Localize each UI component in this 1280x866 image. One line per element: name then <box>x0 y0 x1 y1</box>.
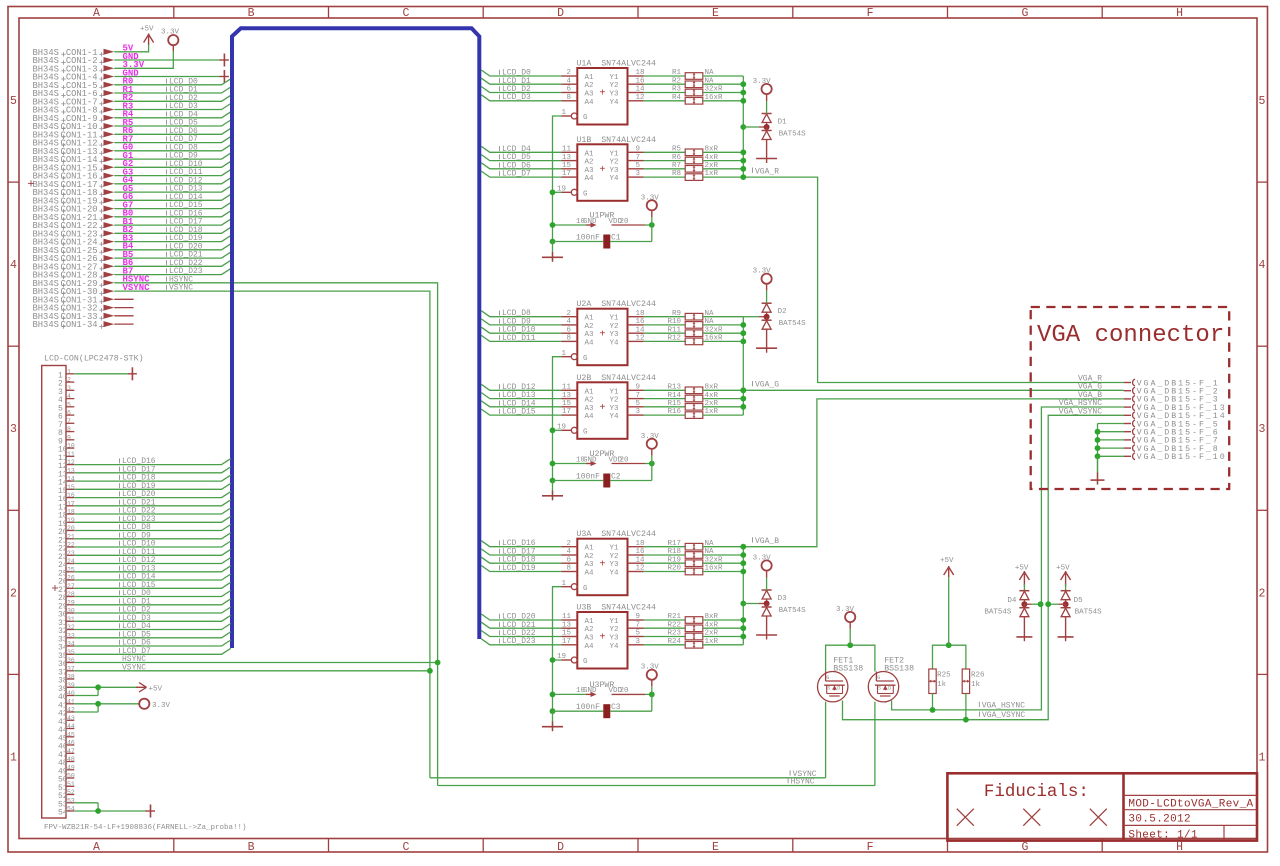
LCD-CON pin 14 <box>58 476 75 488</box>
node VGA_R label at VGA connector <box>1078 375 1102 384</box>
wire LCD_D8 from CON1 <box>114 143 231 152</box>
LCD-CON pin 41 <box>58 698 75 710</box>
connector LCD-CON (LPC2478-STK) body <box>42 354 144 819</box>
connector CON1 pin 22 (BH34S) <box>33 221 115 231</box>
connector pin VGA_DB15-F_2 <box>1124 387 1220 396</box>
part origin CON1 <box>28 180 34 186</box>
svg-text:2: 2 <box>1259 587 1266 600</box>
wire GND LCD-CON pin1 <box>74 373 128 375</box>
LCD-CON pin 45 <box>58 731 75 743</box>
connector CON1 pin 18 (BH34S) <box>33 188 115 198</box>
connector CON1 pin 3 (BH34S) <box>33 64 115 74</box>
svg-text:+5V: +5V <box>1015 564 1029 572</box>
wire LCD_D1 from CON1 <box>114 86 231 95</box>
resistor R19 32xR <box>644 556 744 566</box>
wire enable net U3 <box>553 587 562 712</box>
wire LCD_D3 from CON1 <box>114 102 231 111</box>
LCD-CON pin 50 <box>58 773 75 785</box>
connector CON1 pin 2 (BH34S) <box>33 56 115 66</box>
LCD-CON pin 35 <box>58 649 75 661</box>
node R1 label <box>123 85 134 95</box>
LCD-CON pin 8 <box>58 426 74 438</box>
LCD-CON pin 49 <box>58 764 75 776</box>
connector CON1 pin 7 (BH34S) <box>33 97 115 107</box>
resistor R4 16xR <box>644 94 744 104</box>
connector CON1 pin 23 (BH34S) <box>33 229 115 239</box>
svg-text:A3: A3 <box>585 331 595 339</box>
svg-text:LCD_D15: LCD_D15 <box>502 408 536 417</box>
node VGA_B label at VGA connector <box>1078 391 1102 400</box>
junction <box>740 174 746 180</box>
svg-text:A2: A2 <box>585 159 594 167</box>
power +5V symbol <box>940 557 954 645</box>
svg-text:1: 1 <box>67 368 71 375</box>
svg-text:R6: R6 <box>672 154 682 162</box>
wire diode tap U2 <box>743 316 766 318</box>
svg-text:R5: R5 <box>672 146 682 154</box>
node B6 label <box>123 258 134 268</box>
wire LCD_D23 to U3B <box>481 637 561 646</box>
VGA connector box <box>1031 307 1230 489</box>
LCD-CON pin 42 <box>58 707 75 719</box>
svg-text:3.3V: 3.3V <box>753 78 772 86</box>
node G3 label <box>123 167 134 177</box>
wire LCD_D20 to U3B <box>481 613 561 622</box>
connector CON1 pin 21 (BH34S) <box>33 213 115 223</box>
transistor FET2 BSS138 <box>868 656 914 702</box>
power 3.3V symbol <box>753 268 772 304</box>
svg-text:Y4: Y4 <box>610 643 620 651</box>
LCD-CON pin 53 <box>58 797 75 809</box>
resistor R10 NA <box>644 318 744 328</box>
svg-text:G: G <box>583 658 588 666</box>
wire LCD_D1 to U1A <box>481 77 561 86</box>
LCD-CON pin 34 <box>58 641 75 653</box>
svg-text:BAT54S: BAT54S <box>779 131 807 139</box>
diode D2 BAT54S <box>762 303 807 329</box>
node B1 label <box>123 217 134 227</box>
part origin LCD-CON <box>52 585 58 591</box>
svg-text:R13: R13 <box>667 384 681 392</box>
node 5V label <box>123 44 134 54</box>
svg-text:Y2: Y2 <box>610 159 619 167</box>
svg-text:+: + <box>599 403 605 414</box>
svg-text:R8: R8 <box>672 170 681 178</box>
svg-text:100nF: 100nF <box>576 233 600 242</box>
svg-text:30: 30 <box>67 608 75 615</box>
node G6 label <box>123 192 134 202</box>
connector CON1 pin 25 (BH34S) <box>33 246 115 256</box>
svg-text:1: 1 <box>1259 751 1266 764</box>
connector CON1 pin 13 (BH34S) <box>33 147 115 157</box>
LCD-CON pin 1 <box>58 368 74 380</box>
node G5 label <box>123 184 134 194</box>
LCD-CON pin 2 <box>58 377 74 389</box>
ground <box>542 242 563 262</box>
svg-text:Y1: Y1 <box>610 315 620 323</box>
svg-text:20: 20 <box>67 525 75 532</box>
svg-text:1k: 1k <box>971 681 981 689</box>
svg-text:A4: A4 <box>585 99 595 107</box>
resistor R12 16xR <box>644 335 744 345</box>
wire LCD_D10 from LCD-CON <box>74 540 231 549</box>
svg-text:33: 33 <box>67 632 75 639</box>
wire HSYNC from CON1 <box>114 275 437 785</box>
svg-text:D5: D5 <box>1074 597 1084 605</box>
wire 3.3V LCD-CON pins 41-42 <box>74 704 139 712</box>
op-amp buffer U1B SN74ALVC244 <box>557 136 656 201</box>
svg-text:A: A <box>93 841 100 854</box>
svg-text:7: 7 <box>67 418 71 425</box>
wire LCD_D4 from LCD-CON <box>74 622 231 631</box>
svg-text:38: 38 <box>67 674 75 681</box>
svg-text:R17: R17 <box>667 540 681 548</box>
wire LCD_D17 from LCD-CON <box>74 465 231 474</box>
wire VSYNC bottom <box>430 770 826 779</box>
wire LCD_D15 from CON1 <box>114 201 231 210</box>
svg-text:3.3V: 3.3V <box>152 702 171 710</box>
wire LCD_D16 from LCD-CON <box>74 457 231 466</box>
junctions VGA ground <box>1095 429 1101 459</box>
svg-text:35: 35 <box>67 649 75 656</box>
svg-text:R1: R1 <box>672 69 682 77</box>
wire HSYNC bottom <box>438 778 875 787</box>
svg-text:D2: D2 <box>778 308 787 316</box>
svg-text:+5V: +5V <box>940 557 954 565</box>
node VSYNC label <box>123 283 151 293</box>
junction <box>95 684 101 690</box>
wire LCD_D3 to U1A <box>481 93 561 102</box>
svg-text:BH34S: BH34S <box>33 320 59 330</box>
svg-text:18: 18 <box>67 509 75 516</box>
junction R25 to VGA_HSYNC <box>930 707 936 713</box>
connector CON1 pin 24 (BH34S) <box>33 238 115 248</box>
svg-text:31: 31 <box>67 616 75 623</box>
svg-text:3.3V: 3.3V <box>641 664 660 672</box>
svg-text:32: 32 <box>67 624 75 631</box>
junction <box>740 544 746 550</box>
svg-text:22: 22 <box>67 542 75 549</box>
wire LCD_D7 from CON1 <box>114 135 231 144</box>
wire LCD_D11 to U2A <box>481 334 561 343</box>
svg-text:A1: A1 <box>585 545 595 553</box>
LCD-CON pin 43 <box>58 715 75 727</box>
wire LCD_D7 to U1B <box>481 170 561 179</box>
connector CON1 pin 28 (BH34S) <box>33 271 115 281</box>
junction enable <box>550 427 556 433</box>
ground <box>220 54 229 67</box>
svg-text:23: 23 <box>67 550 75 557</box>
svg-text:R15: R15 <box>667 400 681 408</box>
LCD-CON pin 36 <box>58 657 75 669</box>
connector CON1 pin 11 (BH34S) <box>33 130 115 140</box>
wire +5V LCD-CON pins 39-40 <box>74 687 138 695</box>
LCD-CON pin 54 <box>58 806 75 818</box>
connector CON1 pin 12 (BH34S) <box>33 139 115 149</box>
ground <box>756 329 777 353</box>
LCD-CON pin 6 <box>58 410 74 422</box>
wire LCD_D21 to U3B <box>481 621 561 630</box>
resistor R3 32xR <box>644 86 744 96</box>
connector CON1 pin 15 (BH34S) <box>33 163 115 173</box>
connector CON1 pin 1 (BH34S) <box>33 48 115 58</box>
svg-text:Y2: Y2 <box>610 82 619 90</box>
connector CON1 pin 32 (BH34S) <box>33 304 134 314</box>
svg-text:FPV-WZB21R-54-LF+1908836(FARNE: FPV-WZB21R-54-LF+1908836(FARNELL->Za_pro… <box>44 824 247 832</box>
power 3.3V symbol <box>753 78 772 114</box>
svg-text:VGA connector: VGA connector <box>1037 322 1224 349</box>
capacitor C1 100nF <box>553 225 652 249</box>
svg-text:1: 1 <box>561 109 566 117</box>
svg-text:Y2: Y2 <box>610 323 619 331</box>
connector pin VGA_DB15-F_1 <box>1124 379 1220 388</box>
ground <box>1058 617 1074 642</box>
connector pin VGA_DB15-F_3 <box>1124 396 1220 405</box>
svg-text:B: B <box>248 7 255 20</box>
ground <box>542 481 563 501</box>
svg-text:Y1: Y1 <box>610 150 620 158</box>
svg-text:A1: A1 <box>585 74 595 82</box>
connector CON1 pin 14 (BH34S) <box>33 155 115 165</box>
node R3 label <box>123 101 134 111</box>
ground <box>542 711 563 731</box>
wire LCD_D16 from CON1 <box>114 209 231 218</box>
wire LCD_D22 from CON1 <box>114 259 231 268</box>
wire LCD_D18 from LCD-CON <box>74 474 231 483</box>
svg-text:10: 10 <box>67 443 75 450</box>
svg-text:37: 37 <box>67 665 75 672</box>
connector CON1 pin 34 (BH34S) <box>33 320 134 330</box>
node GND label <box>123 52 140 62</box>
resistor R20 16xR <box>644 565 744 575</box>
svg-text:12: 12 <box>67 459 75 466</box>
svg-text:R23: R23 <box>667 630 681 638</box>
svg-text:G: G <box>1021 841 1028 854</box>
wire LCD_D22 to U3B <box>481 629 561 638</box>
wire VGA_B <box>743 399 1123 547</box>
wire D5 tap <box>1048 603 1065 605</box>
resistor R5 8xR <box>644 146 744 156</box>
node R6 label <box>123 126 134 136</box>
connector CON1 pin 6 (BH34S) <box>33 89 115 99</box>
node VGA_G label at VGA connector <box>1078 383 1102 392</box>
junction <box>740 387 746 393</box>
wire LCD_D12 from LCD-CON <box>74 556 231 565</box>
connector CON1 pin 9 (BH34S) <box>33 114 115 124</box>
resistor R8 1xR <box>644 170 744 180</box>
svg-text:51: 51 <box>67 781 75 788</box>
diode D3 BAT54S <box>762 590 807 616</box>
wire 3.3V pin3 <box>114 51 173 68</box>
svg-text:S: S <box>827 686 830 692</box>
node R7 label <box>123 134 134 144</box>
power 3.3V symbol <box>161 29 180 51</box>
svg-text:41: 41 <box>67 698 75 705</box>
LCD-CON pin 46 <box>58 740 75 752</box>
resistor R13 8xR <box>644 384 744 394</box>
LCD-CON pin 9 <box>58 434 74 446</box>
fiducial cross <box>1023 809 1040 826</box>
svg-text:Y1: Y1 <box>610 545 620 553</box>
wire LCD_D18 to U3A <box>481 556 561 565</box>
wire LCD_D19 to U3A <box>481 564 561 573</box>
svg-text:Y3: Y3 <box>610 635 620 643</box>
LCD-CON pin 21 <box>58 533 75 545</box>
wire LCD_D23 from LCD-CON <box>74 515 231 524</box>
LCD-CON pin 28 <box>58 591 75 603</box>
junction <box>95 808 101 814</box>
wire LCD_D19 from CON1 <box>114 234 231 243</box>
bus LCD data bus <box>232 28 479 648</box>
diode D4 BAT54S <box>984 591 1029 617</box>
svg-text:3: 3 <box>1259 423 1266 436</box>
connector pin VGA_DB15-F_5 <box>1124 420 1220 429</box>
wire LCD_D2 to U1A <box>481 85 561 94</box>
svg-text:Y3: Y3 <box>610 561 620 569</box>
wire LCD_D4 to U1B <box>481 145 561 154</box>
node B3 label <box>123 233 134 243</box>
svg-text:21: 21 <box>67 533 75 540</box>
svg-text:8: 8 <box>67 426 71 433</box>
svg-text:R3: R3 <box>672 86 682 94</box>
svg-text:19: 19 <box>67 517 75 524</box>
svg-text:+5V: +5V <box>149 685 163 693</box>
power pins U3PWR <box>553 681 652 697</box>
svg-text:R18: R18 <box>667 548 681 556</box>
wire LCD_D0 from CON1 <box>114 77 231 86</box>
connector CON1 pin 26 (BH34S) <box>33 254 115 264</box>
svg-text:52: 52 <box>67 789 75 796</box>
svg-text:R9: R9 <box>672 310 681 318</box>
svg-text:27: 27 <box>67 583 75 590</box>
svg-text:R19: R19 <box>667 556 681 564</box>
power 3.3V symbol U1PWR <box>641 194 660 225</box>
LCD-CON pin 4 <box>58 393 74 405</box>
wire +5V rail R25 R26 <box>933 645 966 669</box>
LCD-CON pin 24 <box>58 558 75 570</box>
wire LCD_D14 from CON1 <box>114 193 231 202</box>
svg-text:R20: R20 <box>667 565 681 573</box>
power 3.3V symbol U2PWR <box>641 433 660 464</box>
wire VGA_R <box>743 167 1123 382</box>
svg-text:H: H <box>1176 841 1183 854</box>
svg-text:VSYNC: VSYNC <box>122 663 146 672</box>
ground <box>756 140 777 164</box>
svg-text:2: 2 <box>10 587 17 600</box>
svg-text:GND: GND <box>583 687 597 695</box>
ground <box>1091 456 1105 484</box>
wire LCD_D6 from LCD-CON <box>74 639 231 648</box>
connector CON1 pin 16 (BH34S) <box>33 172 115 182</box>
svg-text:C: C <box>402 841 409 854</box>
wire LCD_D18 from CON1 <box>114 226 231 235</box>
fiducial cross <box>1090 809 1107 826</box>
svg-text:R14: R14 <box>667 392 681 400</box>
junctions on collector <box>740 81 746 171</box>
LCD-CON pin 29 <box>58 599 75 611</box>
svg-text:1: 1 <box>561 350 566 358</box>
svg-text:Y3: Y3 <box>610 167 620 175</box>
svg-text:47: 47 <box>67 748 75 755</box>
power +5V symbol <box>140 26 154 45</box>
connector CON1 pin 30 (BH34S) <box>33 287 115 297</box>
svg-text:H: H <box>1176 7 1183 20</box>
diode D1 BAT54S <box>762 114 807 140</box>
svg-text:Y4: Y4 <box>610 570 620 578</box>
svg-text:13: 13 <box>67 467 75 474</box>
svg-text:GND: GND <box>583 218 597 226</box>
svg-text:R2: R2 <box>672 78 681 86</box>
svg-text:49: 49 <box>67 764 75 771</box>
svg-text:42: 42 <box>67 707 75 714</box>
wire LCD_D9 from CON1 <box>114 152 231 161</box>
resistor R1 NA <box>644 69 744 79</box>
svg-text:G: G <box>583 585 588 593</box>
resistor R21 8xR <box>644 613 744 623</box>
svg-text:43: 43 <box>67 715 75 722</box>
wire LCD_D21 from LCD-CON <box>74 498 231 507</box>
svg-text:Y3: Y3 <box>610 91 620 99</box>
svg-text:A2: A2 <box>585 323 594 331</box>
wire LCD_D20 from LCD-CON <box>74 490 231 499</box>
LCD-CON pin 10 <box>58 443 75 455</box>
wire LCD_D14 to U2B <box>481 399 561 408</box>
op-amp buffer U3A SN74ALVC244 <box>561 530 656 595</box>
power 3.3V symbol U3PWR <box>641 664 660 695</box>
svg-text:LCD_D7: LCD_D7 <box>502 170 531 179</box>
svg-text:VSYNC: VSYNC <box>169 284 193 293</box>
wire output collector U1 <box>742 76 744 177</box>
svg-text:A2: A2 <box>585 626 594 634</box>
wire LCD_D3 from LCD-CON <box>74 614 231 623</box>
op-amp buffer U1A SN74ALVC244 <box>561 60 656 125</box>
resistor R2 NA <box>644 78 744 88</box>
wire D4 tap <box>1024 603 1040 605</box>
wire HSYNC from LCD-CON pin36 <box>74 655 437 664</box>
junction VSYNC <box>427 668 433 674</box>
wire LCD_D10 from CON1 <box>114 160 231 169</box>
svg-text:+: + <box>599 559 605 570</box>
LCD-CON pin 25 <box>58 566 75 578</box>
connector CON1 pin 31 (BH34S) <box>33 295 134 305</box>
svg-text:D: D <box>557 7 564 20</box>
LCD-CON pin 31 <box>58 616 75 628</box>
junction <box>550 222 655 244</box>
svg-text:+5V: +5V <box>140 26 154 34</box>
svg-text:4: 4 <box>10 259 17 272</box>
svg-text:CON1-34: CON1-34 <box>61 320 98 330</box>
svg-text:53: 53 <box>67 797 75 804</box>
svg-text:D4: D4 <box>1007 597 1017 605</box>
node G2 label <box>123 159 134 169</box>
LCD-CON pin 52 <box>58 789 75 801</box>
svg-text:44: 44 <box>67 723 75 730</box>
wire LCD_D21 from CON1 <box>114 251 231 260</box>
svg-text:15: 15 <box>67 484 75 491</box>
wire LCD_D6 from CON1 <box>114 127 231 136</box>
LCD-CON pin 11 <box>58 451 75 463</box>
svg-text:Y4: Y4 <box>610 175 620 183</box>
connector pin VGA_DB15-F_8 <box>1124 445 1220 454</box>
resistor R7 2xR <box>644 162 744 172</box>
node VGA_VSYNC label at VGA connector <box>1059 407 1102 416</box>
junction <box>550 461 655 484</box>
svg-text:BAT54S: BAT54S <box>779 607 807 615</box>
wire LCD_D23 from CON1 <box>114 267 231 276</box>
svg-text:2: 2 <box>67 377 71 384</box>
svg-text:100nF: 100nF <box>576 703 600 712</box>
ground <box>128 367 137 380</box>
